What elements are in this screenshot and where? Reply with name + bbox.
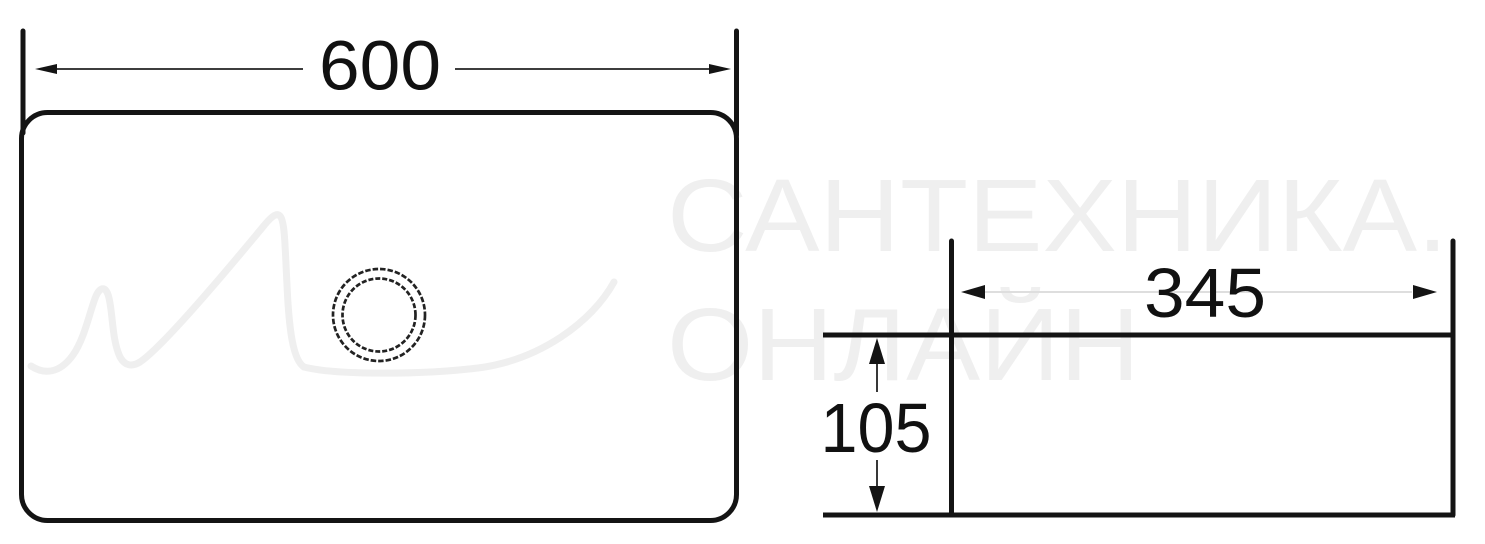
arrowhead 600 right bbox=[709, 64, 731, 74]
side view left vertical / extension line bbox=[949, 241, 954, 515]
svg-text:600: 600 bbox=[319, 27, 441, 105]
svg-text:105: 105 bbox=[821, 389, 932, 467]
svg-text:САНТЕХНИКА.: САНТЕХНИКА. bbox=[667, 158, 1448, 273]
watermark script flourish bbox=[31, 215, 614, 373]
extension line right (600 dim) bbox=[734, 31, 739, 135]
side view top line bbox=[823, 333, 1455, 338]
arrowhead 345 left bbox=[961, 285, 985, 299]
arrowhead 600 left bbox=[35, 64, 57, 74]
dimension line 600 left segment bbox=[52, 68, 303, 70]
drain hole inner circle bbox=[343, 279, 416, 352]
side view bottom line bbox=[823, 513, 1455, 518]
dimension line 105 lower segment bbox=[876, 460, 878, 488]
arrowhead 105 up bbox=[869, 338, 885, 364]
side view right vertical / extension line bbox=[1451, 241, 1456, 515]
dimension line 105 upper segment bbox=[876, 358, 878, 392]
washbasin top view: rounded rectangle bbox=[22, 113, 737, 521]
drain hole outer circle bbox=[333, 269, 425, 361]
extension line left (600 dim) bbox=[21, 31, 26, 133]
arrowhead 105 down bbox=[869, 486, 885, 512]
dimension line 600 right segment bbox=[455, 68, 710, 70]
dimension line 345 (faded) bbox=[985, 291, 1412, 293]
arrowhead 345 right bbox=[1413, 285, 1437, 299]
svg-text:345: 345 bbox=[1144, 254, 1266, 332]
